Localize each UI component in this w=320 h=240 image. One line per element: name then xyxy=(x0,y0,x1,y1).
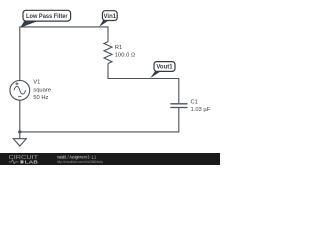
svg-text:Low Pass Filter: Low Pass Filter xyxy=(26,13,68,20)
svg-text:100.0 Ω: 100.0 Ω xyxy=(115,52,136,58)
label box "Low Pass Filter" xyxy=(20,21,37,28)
resistor R1 xyxy=(104,42,112,64)
svg-text:50 Hz: 50 Hz xyxy=(33,95,48,101)
voltage source V1 xyxy=(10,80,30,100)
label box / net flag Vout1 xyxy=(150,71,160,78)
ground xyxy=(19,132,21,139)
wire: top loop from source top to resistor top xyxy=(20,27,108,81)
svg-text:square: square xyxy=(33,87,51,93)
label box / net flag Vin1 xyxy=(99,20,108,26)
wire: capacitor bottom to bottom rail xyxy=(20,108,179,132)
svg-text:Vin1: Vin1 xyxy=(104,14,117,20)
capacitor C1 xyxy=(170,104,187,108)
svg-text:C1: C1 xyxy=(191,100,198,106)
svg-text:R1: R1 xyxy=(115,45,122,51)
wire: source bottom to bottom rail xyxy=(19,100,21,132)
svg-text:1.03 µF: 1.03 µF xyxy=(191,107,211,113)
wire: resistor bottom to capacitor top xyxy=(108,64,179,104)
svg-text:V1: V1 xyxy=(33,80,40,86)
svg-text:LAB: LAB xyxy=(25,159,39,165)
svg-text:Vout1: Vout1 xyxy=(156,65,173,71)
node junction dot xyxy=(18,130,21,133)
footer bar xyxy=(0,153,220,165)
svg-text:http://circuitlab.com/c/bc2868: http://circuitlab.com/c/bc28684wby xyxy=(57,159,103,164)
